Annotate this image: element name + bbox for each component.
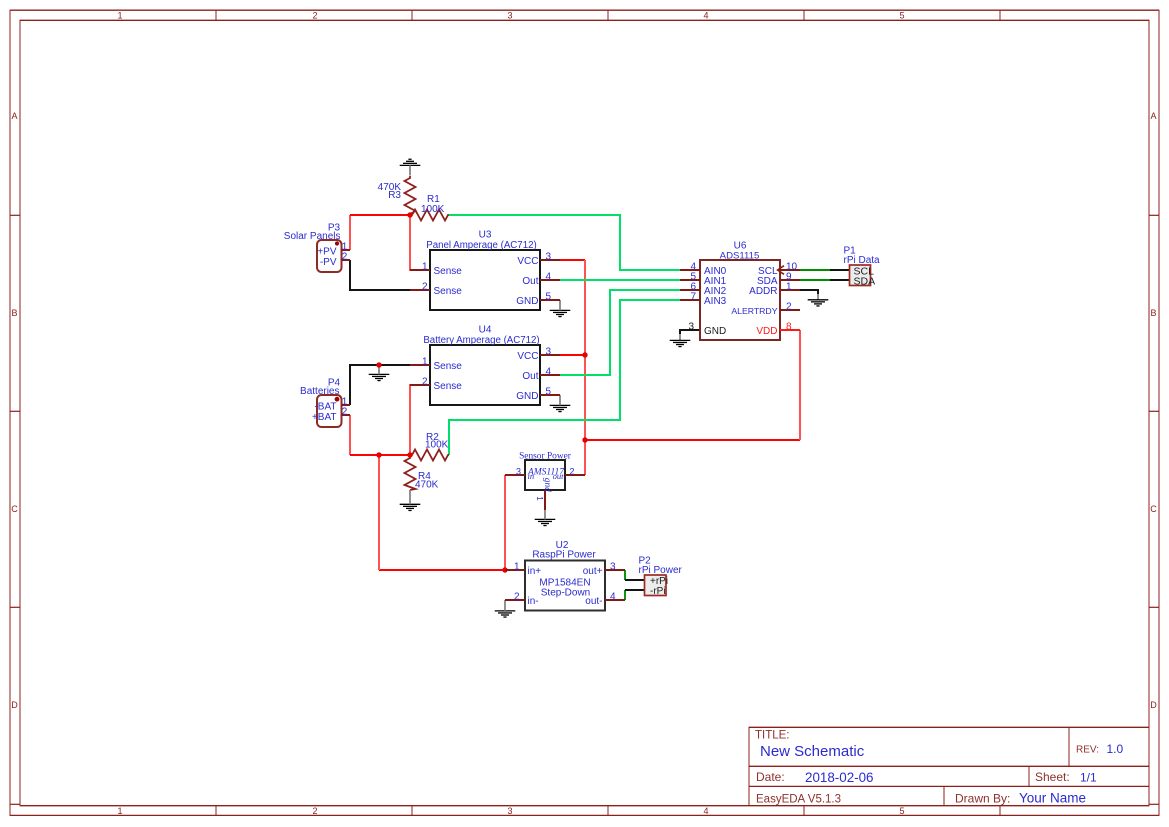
U4 pin 2 Sense: [410, 384, 430, 386]
svg-text:5: 5: [899, 10, 904, 20]
svg-text:Out: Out: [522, 276, 538, 287]
wire: P2 +rPi link (black): [625, 579, 645, 581]
svg-text:rPi Data: rPi Data: [844, 255, 881, 266]
IC U3 (Panel Amperage AC712): [430, 250, 540, 310]
wire: U3 VCC to vertical VCC rail (red): [560, 259, 585, 261]
svg-text:in: in: [528, 471, 535, 481]
ground (above R3, inverted): [400, 159, 421, 165]
wire: net AIN0 from R1 right to U6 pin4 (green): [449, 215, 680, 270]
svg-text:1: 1: [117, 806, 122, 816]
ground (U6 ADDR tap): [808, 300, 829, 306]
svg-text:Step-Down: Step-Down: [541, 588, 590, 599]
svg-text:2: 2: [422, 376, 428, 387]
svg-text:ALERTRDY: ALERTRDY: [731, 306, 777, 316]
TITLE BLOCK: [749, 727, 1149, 806]
U6 pin 2 ALERTRDY: [780, 309, 800, 311]
svg-text:1/1: 1/1: [1080, 771, 1097, 785]
wire: battery+ horizontal to R2/R4 node (red): [350, 454, 412, 456]
svg-text:Drawn By:: Drawn By:: [955, 791, 1010, 805]
connector P1 (rPi Data): [850, 265, 871, 286]
svg-text:4: 4: [546, 366, 552, 377]
svg-text:gnd: gnd: [542, 478, 552, 492]
U6 pin 1 ADDR: [780, 289, 800, 291]
svg-text:Sensor Power: Sensor Power: [519, 452, 572, 462]
AMS pin 1 gnd (bottom): [544, 490, 546, 510]
svg-text:Your Name: Your Name: [1019, 791, 1086, 806]
wire: VDD net horizontal from AMS junction to U6 riser (red): [585, 439, 800, 441]
svg-text:Out: Out: [522, 371, 538, 382]
U3 pin 1 Sense: [410, 269, 430, 271]
ground (U2 in- pin2): [495, 611, 516, 617]
svg-text:Sense: Sense: [434, 361, 463, 372]
wire: U4 VCC to VCC rail (red): [560, 354, 585, 356]
svg-text:C: C: [11, 504, 18, 514]
wire: U2 out+ jog down (green): [624, 570, 626, 580]
svg-text:REV:: REV:: [1076, 745, 1099, 756]
wire: U6 ADDR to ground tap (black): [800, 290, 818, 294]
svg-text:2: 2: [786, 301, 792, 312]
IC U2 (MP1584EN RaspPi Power): [525, 561, 605, 611]
svg-text:1: 1: [422, 261, 428, 272]
resistor R3 (470K) vertical: [405, 176, 416, 215]
ground (U6 GND pin3): [670, 340, 691, 346]
svg-text:out: out: [553, 471, 565, 481]
svg-text:1: 1: [422, 356, 428, 367]
svg-text:R3: R3: [388, 190, 401, 201]
wire: U2 out- jog up (green): [624, 590, 626, 600]
svg-text:1: 1: [514, 561, 520, 572]
resistor R2 (100K) horizontal: [410, 450, 449, 461]
svg-text:Sense: Sense: [434, 266, 463, 277]
svg-text:3: 3: [507, 806, 512, 816]
wire: horizontal into node R1-left (red): [350, 214, 410, 216]
svg-text:Batteries: Batteries: [300, 386, 339, 397]
wire: SDA link U6 pin9 to P1 (dark green): [800, 279, 830, 281]
wire: net AIN2 U4 Out to U6 pin6 (green): [560, 290, 680, 375]
svg-text:4: 4: [610, 591, 616, 602]
svg-text:8: 8: [786, 321, 792, 332]
svg-text:-BAT: -BAT: [314, 402, 336, 413]
junction node (U2 in+): [502, 567, 507, 572]
connector P2 (rPi Power): [645, 575, 667, 596]
U2 pin 4 out-: [605, 599, 625, 601]
svg-text:1: 1: [786, 281, 792, 292]
svg-text:GND: GND: [516, 296, 538, 307]
svg-text:2: 2: [342, 252, 348, 263]
svg-text:Sheet:: Sheet:: [1035, 770, 1070, 784]
connector P3 (Solar Panels): [317, 240, 342, 272]
regulator U5 (AMS1117, Sensor Power): [525, 460, 565, 490]
svg-text:U3: U3: [479, 230, 492, 241]
resistor R1 (100K) horizontal: [410, 210, 449, 221]
svg-text:-rPi: -rPi: [650, 586, 666, 597]
svg-text:+BAT: +BAT: [312, 412, 337, 423]
svg-text:Panel Amperage (AC712): Panel Amperage (AC712): [426, 240, 536, 251]
wire: net AIN1 U3 Out to U6 pin5 (green): [560, 279, 680, 281]
wire: P3 pin2 to U3 Sense pin2 (black): [350, 260, 412, 290]
svg-text:out+: out+: [583, 566, 603, 577]
junction node (AMS out / VDD net): [582, 437, 587, 442]
svg-text:New Schematic: New Schematic: [760, 743, 865, 760]
svg-text:4: 4: [703, 10, 708, 20]
connector P4 (Batteries): [317, 395, 342, 427]
IC U6 (ADS1115): [700, 260, 780, 340]
svg-text:7: 7: [690, 291, 696, 302]
svg-text:B: B: [11, 308, 17, 318]
svg-text:VCC: VCC: [517, 256, 538, 267]
U4 pin 5 GND: [540, 394, 560, 396]
wire: P1 SDA pin lead (black): [830, 279, 850, 281]
svg-text:1: 1: [535, 496, 544, 501]
junction node (R2/R4 divider): [407, 452, 412, 457]
P4 pin 1: [342, 404, 351, 406]
svg-text:TITLE:: TITLE:: [755, 729, 790, 741]
svg-text:3: 3: [688, 321, 694, 332]
svg-text:100K: 100K: [421, 204, 445, 215]
wire: AMS1117 in down to U2 in+ junction (red): [504, 475, 506, 570]
U4 pin 3 VCC: [540, 354, 560, 356]
svg-text:VCC: VCC: [517, 351, 538, 362]
svg-text:3: 3: [507, 10, 512, 20]
svg-text:5: 5: [899, 806, 904, 816]
AMS pin 3 in: [505, 474, 525, 476]
svg-text:3: 3: [516, 466, 521, 476]
U6 pin 4 AIN0: [680, 269, 700, 271]
AMS pin 2 out: [565, 474, 585, 476]
svg-text:Sense: Sense: [434, 286, 463, 297]
U2 pin 3 out+: [605, 569, 625, 571]
svg-text:2: 2: [312, 806, 317, 816]
wire: VDD riser up to U6 pin8 (red): [799, 330, 801, 440]
wire: P4 pin1 up and right to U4 Sense pin1 (black): [350, 365, 412, 405]
svg-text:ADS1115: ADS1115: [720, 250, 760, 261]
svg-text:470K: 470K: [415, 480, 439, 491]
svg-text:RaspPi Power: RaspPi Power: [532, 550, 596, 561]
P3 pin 2: [342, 259, 351, 261]
svg-text:3: 3: [546, 251, 552, 262]
U6 pin 9 SDA: [780, 279, 800, 281]
svg-text:Sense: Sense: [434, 381, 463, 392]
svg-text:2: 2: [570, 466, 575, 476]
svg-text:+PV: +PV: [317, 247, 337, 258]
P4 pin 2: [342, 414, 351, 416]
svg-text:ADDR: ADDR: [749, 286, 777, 297]
ground (battery minus tap at U4 pin1 wire): [369, 374, 390, 380]
svg-text:5: 5: [546, 386, 552, 397]
U6 pin 7 AIN3: [680, 299, 700, 301]
ground (U3 GND pin5): [550, 310, 571, 316]
U2 pin 2 in-: [505, 599, 525, 601]
svg-text:C: C: [1150, 504, 1157, 514]
U3 pin 3 VCC: [540, 259, 560, 261]
svg-text:B: B: [1150, 308, 1156, 318]
svg-text:-PV: -PV: [320, 257, 337, 268]
svg-text:in+: in+: [528, 566, 542, 577]
wire: node R1-left down to U3 Sense pin1 (red): [410, 215, 428, 270]
svg-text:VDD: VDD: [756, 326, 777, 337]
wire: P4 pin2 down (red): [349, 415, 351, 455]
svg-text:Battery Amperage (AC712): Battery Amperage (AC712): [423, 335, 539, 346]
svg-text:Date:: Date:: [756, 770, 785, 784]
wire: net AIN3 from R2 right to U6 pin7 (green): [449, 300, 680, 455]
svg-text:in-: in-: [528, 596, 539, 607]
svg-text:rPi Power: rPi Power: [639, 565, 683, 576]
U3 pin 4 Out: [540, 279, 560, 281]
svg-text:EasyEDA V5.1.3: EasyEDA V5.1.3: [756, 793, 841, 805]
U6 pin 6 AIN2: [680, 289, 700, 291]
junction node (R3/R1/P3 net): [407, 212, 412, 217]
svg-text:A: A: [1150, 111, 1156, 121]
wire: P1 SCL pin lead (black): [830, 269, 850, 271]
wire: U6 GND pin3 lead (black): [680, 330, 700, 334]
svg-text:3: 3: [610, 561, 616, 572]
P3 pin 1: [342, 249, 351, 251]
IC U4 (Battery Amperage AC712): [430, 345, 540, 405]
ground (below R4): [400, 504, 421, 510]
U6 pin 10 SCL: [780, 269, 800, 271]
svg-text:GND: GND: [516, 391, 538, 402]
svg-text:out-: out-: [585, 596, 602, 607]
svg-text:3: 3: [546, 346, 552, 357]
U2 pin 1 in+: [505, 569, 525, 571]
svg-text:D: D: [11, 700, 18, 710]
svg-text:2018-02-06: 2018-02-06: [805, 770, 874, 785]
svg-text:SDA: SDA: [854, 276, 876, 288]
wire: SCL link U6 pin10 to P1 (dark green): [800, 269, 830, 271]
svg-text:U4: U4: [479, 325, 492, 336]
svg-text:A: A: [11, 111, 17, 121]
wire: battery+ horizontal to U2 in+ (red): [379, 569, 505, 571]
junction node (battery+ riser): [376, 452, 381, 457]
svg-text:2: 2: [422, 281, 428, 292]
svg-text:5: 5: [546, 291, 552, 302]
svg-text:100K: 100K: [425, 440, 449, 451]
resistor R4 (470K) vertical: [405, 456, 416, 490]
U3 pin 2 Sense: [410, 289, 430, 291]
wire: U4 Sense pin2 riser down to R2 node (red): [410, 385, 428, 453]
wire: P3 pin1 up to R junction (red): [349, 215, 351, 250]
svg-text:4: 4: [546, 271, 552, 282]
svg-text:1: 1: [117, 10, 122, 20]
ground (AMS1117 gnd pin1): [535, 519, 556, 525]
svg-text:2: 2: [514, 591, 520, 602]
U4 pin 4 Out: [540, 374, 560, 376]
svg-text:Solar Panels: Solar Panels: [284, 231, 341, 242]
wire: VCC vertical rail down to AMS1117 out (red): [584, 260, 586, 475]
svg-text:GND: GND: [704, 326, 726, 337]
U6 pin 8 VDD (red): [780, 329, 800, 331]
U6 pin 5 AIN1: [680, 279, 700, 281]
ground (U4 GND pin5): [550, 405, 571, 411]
U3 pin 5 GND: [540, 299, 560, 301]
junction node (battery- ground tap): [376, 362, 381, 367]
junction node (U4 VCC on rail): [582, 352, 587, 357]
svg-text:2: 2: [342, 407, 348, 418]
svg-text:D: D: [1150, 700, 1157, 710]
svg-text:1.0: 1.0: [1107, 742, 1124, 756]
svg-text:2: 2: [312, 10, 317, 20]
U4 pin 1 Sense: [410, 364, 430, 366]
wire: battery+ riser (red): [378, 455, 380, 570]
svg-text:4: 4: [703, 806, 708, 816]
svg-text:AIN3: AIN3: [704, 296, 727, 307]
wire: P2 -rPi link (black): [625, 589, 645, 591]
